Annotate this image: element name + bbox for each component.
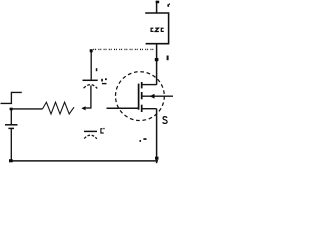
capacitor C1 curved plate bbox=[84, 85, 98, 89]
MOSFET channel segment source bbox=[141, 105, 143, 112]
node rail left junction dot bbox=[9, 159, 13, 162]
capacitor C1 flat plate bbox=[83, 79, 98, 81]
node A junction dot bbox=[10, 108, 13, 111]
label czc bbox=[151, 28, 164, 31]
MOSFET gate bar bbox=[138, 84, 140, 110]
label C (capacitor C2) bbox=[101, 129, 104, 133]
wire bbox=[11, 108, 42, 110]
pulse source V1 step waveform icon bbox=[1, 92, 22, 103]
current arrow bbox=[81, 106, 85, 110]
MOSFET drain lead bbox=[142, 84, 157, 86]
tick label bbox=[167, 4, 169, 7]
capacitor Cdc box (open left side) bbox=[145, 13, 168, 44]
battery V1 long plate bbox=[5, 124, 18, 126]
wire bbox=[10, 129, 12, 162]
wire stub to Cdc box bbox=[156, 1, 158, 14]
wire gate bbox=[107, 107, 139, 109]
ground rail wire bbox=[9, 160, 158, 162]
wire source to rail bbox=[156, 109, 158, 164]
label dash bbox=[143, 138, 146, 140]
MOSFET M1 package dashed circle bbox=[115, 72, 164, 121]
label dot bbox=[140, 140, 142, 142]
wire bbox=[90, 52, 92, 80]
tick label bbox=[167, 56, 169, 61]
MOSFET source lead bbox=[142, 108, 157, 110]
wire bbox=[85, 107, 92, 109]
battery V1 short plate bbox=[8, 127, 14, 129]
capacitor C2 flat plate bbox=[84, 130, 97, 132]
MOSFET channel segment body bbox=[141, 92, 143, 99]
label s bbox=[163, 117, 167, 124]
node top junction dot bbox=[156, 1, 160, 4]
label c (capacitor C1) bbox=[101, 79, 103, 82]
wire from box to drain bbox=[156, 44, 158, 85]
MOSFET body arrow bbox=[150, 94, 155, 99]
wire bbox=[90, 86, 92, 109]
wire bbox=[10, 108, 12, 124]
resistor R1 bbox=[43, 102, 75, 114]
MOSFET channel segment drain bbox=[141, 82, 143, 88]
MOSFET body lead bbox=[142, 95, 173, 97]
tick label bbox=[96, 68, 98, 71]
node junction dot on drain wire bbox=[155, 58, 159, 61]
dotted wire bbox=[93, 48, 155, 50]
node junction dot bbox=[155, 157, 159, 160]
capacitor C2 curved plate bbox=[84, 135, 97, 139]
node B junction dot bbox=[90, 49, 93, 52]
